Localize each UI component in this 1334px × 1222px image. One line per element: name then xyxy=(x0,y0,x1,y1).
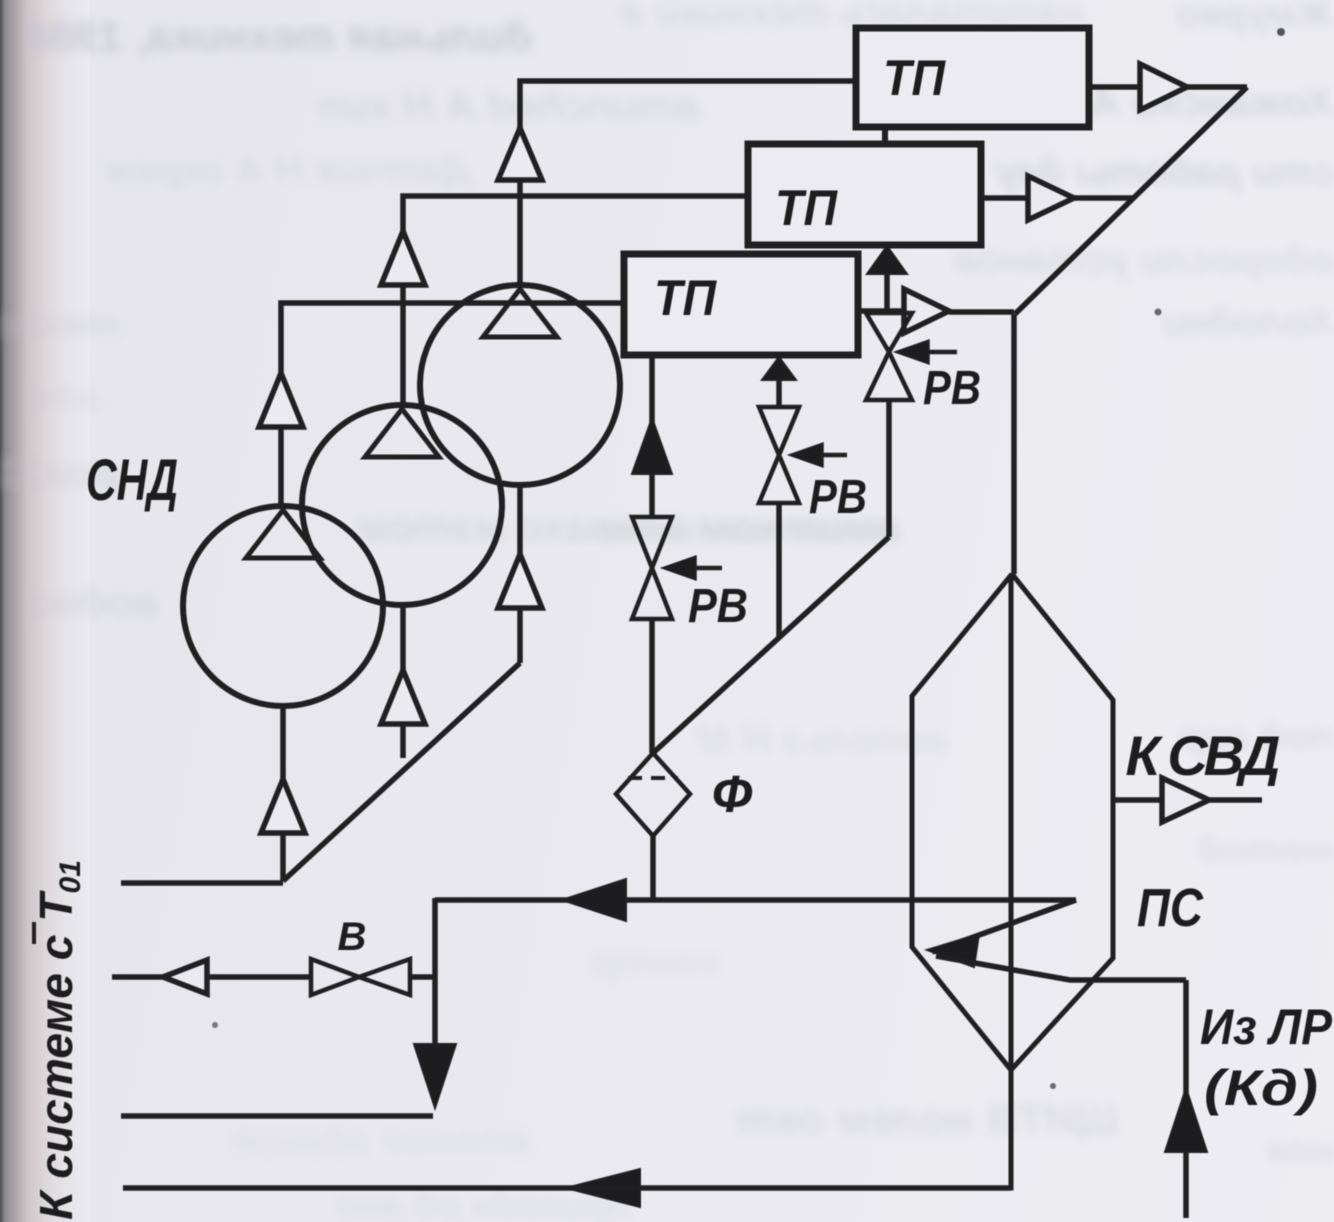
filled arrow up into TP2 xyxy=(867,246,907,274)
wire suction manifold diagonal xyxy=(283,663,520,881)
svg-text:ТП: ТП xyxy=(654,270,717,326)
svg-text:ТП: ТП xyxy=(883,50,946,106)
vessel PS shell xyxy=(912,574,1113,1070)
filled arrow up on Iz LR riser xyxy=(1165,1088,1207,1152)
wire P2 suction xyxy=(400,605,406,758)
check valve arrow on P3 discharge xyxy=(259,373,303,427)
heat exchanger box TP2 xyxy=(748,144,981,245)
svg-text:Ф: Ф xyxy=(712,766,753,824)
wire turbine down to vessel top xyxy=(1011,314,1017,574)
wire RV1 drain diagonal to filter xyxy=(653,537,889,753)
wire TP1 outlet to turbine apex xyxy=(1089,84,1247,90)
wire TP2 feed riser xyxy=(884,247,890,313)
page gutter edge xyxy=(0,0,90,1222)
filled arrow left on L4 xyxy=(566,1169,640,1207)
scan speck top right xyxy=(1277,28,1285,36)
wire stub TP1 to TP2 xyxy=(882,125,888,146)
wire P2 discharge to TP2 xyxy=(403,196,748,405)
wire TP2 outlet to turbine xyxy=(981,195,1134,201)
filled arrow down on riser xyxy=(414,1044,456,1108)
wire RV1 drain vertical xyxy=(886,400,892,537)
filter dashed screen xyxy=(628,776,678,780)
valve B bowtie xyxy=(311,959,410,995)
svg-text:К системе с Т01: К системе с Т01 xyxy=(30,860,87,1220)
filled arrow up on TP3 drain xyxy=(632,418,672,474)
pump P3 circle xyxy=(183,506,383,706)
svg-text:РВ: РВ xyxy=(923,362,981,415)
label K sisteme s T01 rotated xyxy=(30,860,87,1220)
spray zigzag segment 3 xyxy=(936,956,1186,980)
wire Iz LR riser xyxy=(1183,980,1189,1218)
wire riser x435 xyxy=(432,898,438,1048)
check valve arrow on P1 discharge xyxy=(498,128,542,180)
svg-text:РВ: РВ xyxy=(809,471,867,524)
wire return line L3 xyxy=(121,1113,433,1119)
hollow arrow left on drain stub xyxy=(163,960,207,994)
wire TP3 drain column at RV2 xyxy=(776,355,782,407)
wire P3 discharge to TP3 xyxy=(281,303,624,504)
check valve arrow on P1 suction xyxy=(498,554,542,608)
spray zigzag segment 2 xyxy=(932,900,1076,952)
wire spray water line y900 xyxy=(435,897,1076,903)
scan speck mid right xyxy=(1155,309,1162,316)
check valve arrow on TP1 outlet xyxy=(1140,64,1187,110)
svg-text:К СВД: К СВД xyxy=(1126,724,1281,787)
filter F diamond xyxy=(616,753,690,836)
filled arrow left on spray line xyxy=(562,879,626,921)
valve RV1 bowtie xyxy=(866,313,912,400)
macron over s in left label xyxy=(32,922,36,944)
svg-text:В: В xyxy=(338,915,367,959)
heat exchanger box TP3 xyxy=(624,254,858,355)
turbine diagonal edge xyxy=(1015,87,1247,314)
wire junction to vessel top riser xyxy=(949,309,1014,315)
svg-text:ТП: ТП xyxy=(775,180,838,236)
wire RV2 down to drain diagonal xyxy=(776,503,782,637)
wire P1 discharge to TP1 xyxy=(520,81,856,284)
svg-text:ПС: ПС xyxy=(1137,878,1204,938)
check valve arrow on P2 suction xyxy=(381,670,425,724)
check valve arrow on P2 discharge xyxy=(381,231,425,285)
scan speck lower right xyxy=(1050,1083,1056,1089)
wire TP3 outlet to junction xyxy=(858,308,904,314)
wire RV3 to filter xyxy=(649,619,655,753)
wire filter to spray line xyxy=(650,836,656,900)
wire valve B to riser xyxy=(410,974,435,980)
wire K SVD outlet xyxy=(1113,797,1262,803)
wire vessel internal drop pipe xyxy=(123,574,1011,1188)
actuator arrow RV2 xyxy=(789,443,847,467)
pump P2 circle xyxy=(302,405,502,605)
actuator arrow RV3 xyxy=(662,556,722,580)
svg-text:РВ: РВ xyxy=(688,580,748,633)
svg-text:(Кд): (Кд) xyxy=(1204,1060,1318,1116)
filled arrow up under TP3 xyxy=(762,357,796,380)
heat exchanger box TP1 xyxy=(856,28,1089,127)
wire P3 suction xyxy=(280,706,286,881)
wire P1 suction xyxy=(517,485,523,663)
check valve arrow right at RV1 junction xyxy=(904,289,949,333)
check valve arrow on K SVD outlet xyxy=(1162,778,1209,822)
valve RV3 bowtie xyxy=(632,517,672,619)
actuator arrow RV1 xyxy=(895,340,957,364)
wire TP3 drain column upper xyxy=(649,355,655,517)
wire drain stub with arrow to system xyxy=(112,974,311,980)
wire bottom line L4 from vessel drain xyxy=(123,1185,1011,1191)
check valve arrow on P3 suction xyxy=(261,779,305,833)
svg-text:Из ЛР: Из ЛР xyxy=(1200,999,1333,1055)
pump P1 circle xyxy=(420,285,620,485)
valve RV2 bowtie xyxy=(759,407,799,503)
filled arrow on zigzag xyxy=(927,934,979,967)
check valve arrow on TP2 outlet xyxy=(1028,176,1074,220)
scan speck near valve B xyxy=(212,1022,218,1028)
svg-text:СНД: СНД xyxy=(86,448,178,513)
wire inlet header left xyxy=(121,880,283,886)
